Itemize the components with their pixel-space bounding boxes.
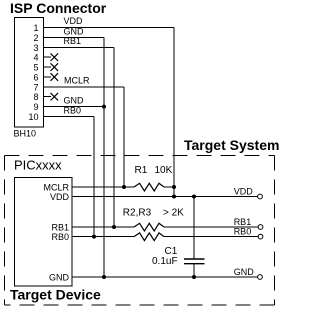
resistor R2 xyxy=(134,223,164,231)
wire pin2 GND horizontal xyxy=(44,37,105,39)
junction dot C1 top xyxy=(192,195,196,199)
svg-text:0.1uF: 0.1uF xyxy=(152,256,178,267)
wire R1 to VDD vertical xyxy=(164,186,174,188)
capacitor C1 bottom lead xyxy=(193,264,195,277)
svg-text:2: 2 xyxy=(33,33,38,43)
Target System dashed border top xyxy=(5,155,275,157)
svg-text:R1: R1 xyxy=(135,165,148,176)
svg-text:VDD: VDD xyxy=(64,16,84,26)
svg-text:GND: GND xyxy=(234,267,255,277)
pin 4 no-connect stub xyxy=(44,56,52,58)
wire GND from PIC to terminal xyxy=(72,276,258,278)
capacitor C1 bottom plate xyxy=(184,263,205,265)
svg-text:Target Device: Target Device xyxy=(10,286,101,302)
junction dot GND vertical xyxy=(102,275,106,279)
svg-text:4: 4 xyxy=(33,53,38,63)
wire pin7 MCLR horizontal xyxy=(44,86,125,88)
pin 6 no-connect X xyxy=(51,73,59,81)
svg-text:ISP Connector: ISP Connector xyxy=(10,0,107,16)
svg-text:7: 7 xyxy=(33,82,38,92)
svg-text:BH10: BH10 xyxy=(14,129,37,139)
svg-text:GND: GND xyxy=(49,273,70,283)
svg-text:8: 8 xyxy=(33,92,38,102)
svg-text:3: 3 xyxy=(33,43,38,53)
Target System dashed border bottom xyxy=(5,304,275,306)
svg-text:RB1: RB1 xyxy=(64,36,82,46)
wire RB1 from PIC to R2 xyxy=(72,226,134,228)
svg-text:RB1: RB1 xyxy=(234,217,252,227)
svg-text:PICxxxx: PICxxxx xyxy=(14,158,62,173)
terminal circle RB1 xyxy=(258,225,263,230)
svg-text:VDD: VDD xyxy=(50,192,70,202)
svg-text:MCLR: MCLR xyxy=(43,183,69,193)
wire pin1 VDD horizontal xyxy=(44,27,175,29)
resistor R1 xyxy=(134,183,164,191)
svg-text:RB0: RB0 xyxy=(64,105,82,115)
svg-text:RB0: RB0 xyxy=(51,232,69,242)
PIC device box U1 xyxy=(15,178,73,287)
junction dot RB0 net xyxy=(92,235,96,239)
wire MCLR vertical drop xyxy=(123,87,125,187)
terminal circle GND xyxy=(258,275,263,280)
capacitor C1 top lead xyxy=(193,197,195,260)
svg-text:RB0: RB0 xyxy=(234,227,252,237)
pin 6 no-connect stub xyxy=(44,76,52,78)
svg-text:> 2K: > 2K xyxy=(163,208,184,219)
connector BH10 box xyxy=(15,18,44,128)
wire RB0 vertical drop xyxy=(93,117,95,237)
wire RB1 vertical drop xyxy=(113,47,115,227)
svg-text:9: 9 xyxy=(33,102,38,112)
junction dot C1 bottom xyxy=(192,275,196,279)
svg-text:RB1: RB1 xyxy=(51,223,69,233)
svg-text:10: 10 xyxy=(28,112,38,122)
resistor R3 xyxy=(134,233,164,241)
wire R2 to RB1 terminal xyxy=(164,226,258,228)
terminal circle VDD xyxy=(258,194,263,199)
pin 5 no-connect X xyxy=(51,63,59,71)
junction dot RB1 net xyxy=(112,225,116,229)
wire pin10 RB0 horizontal xyxy=(44,116,95,118)
pin 5 no-connect stub xyxy=(44,66,52,68)
wire R3 to RB0 terminal xyxy=(164,236,258,238)
svg-text:R2,R3: R2,R3 xyxy=(123,208,152,219)
wire GND vertical drop xyxy=(103,38,105,278)
svg-text:5: 5 xyxy=(33,63,38,73)
wire pin9 GND horizontal xyxy=(44,106,105,108)
wire RB0 from PIC to R3 xyxy=(72,236,134,238)
wire MCLR from PIC to R1 xyxy=(72,186,134,188)
pin 8 no-connect stub xyxy=(44,96,52,98)
junction dot pin9/GND xyxy=(102,105,106,109)
wire VDD vertical drop xyxy=(173,28,175,197)
svg-text:10K: 10K xyxy=(155,165,173,176)
svg-text:MCLR: MCLR xyxy=(64,76,90,86)
pin 8 no-connect X xyxy=(51,93,59,101)
svg-text:VDD: VDD xyxy=(234,187,254,197)
capacitor C1 top plate xyxy=(184,258,205,260)
svg-text:GND: GND xyxy=(64,95,85,105)
svg-text:6: 6 xyxy=(33,72,38,82)
svg-text:1: 1 xyxy=(33,23,38,33)
Target System dashed border right xyxy=(274,156,276,306)
pin 4 no-connect X xyxy=(51,53,59,61)
junction dot R1/VDD xyxy=(172,185,176,189)
junction dot VDD vertical xyxy=(172,195,176,199)
Target System dashed border left xyxy=(4,156,6,306)
wire pin3 RB1 horizontal xyxy=(44,46,115,48)
wire VDD from PIC to terminal xyxy=(72,196,258,198)
terminal circle RB0 xyxy=(258,234,263,239)
svg-text:Target System: Target System xyxy=(184,137,279,153)
junction dot MCLR net xyxy=(122,185,126,189)
svg-text:GND: GND xyxy=(64,26,85,36)
